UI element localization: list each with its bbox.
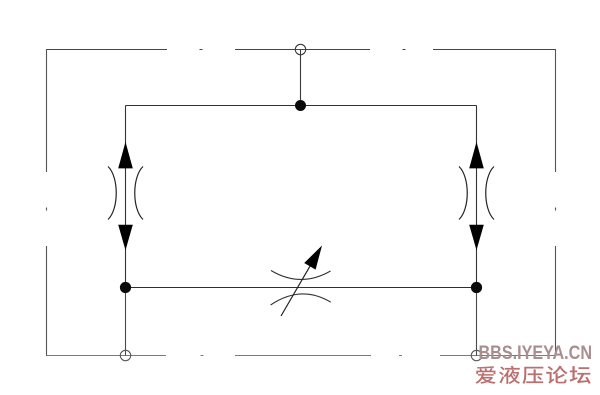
wire: bottom left port stub: [125, 288, 127, 356]
variable throttle: adjustment arrow shaft: [281, 266, 310, 316]
throttle valve right: up arrow: [469, 142, 484, 169]
svg-text:BBS.IYEYA.CN: BBS.IYEYA.CN: [479, 343, 593, 364]
variable throttle: adjustment arrow head: [304, 246, 322, 270]
enclosure boundary left (dash-dot): [46, 49, 48, 356]
throttle valve left: arcs: [108, 167, 143, 220]
throttle valve left: down arrow: [118, 225, 133, 251]
wire: bottom right port stub: [476, 288, 478, 356]
variable throttle: upper arc: [271, 271, 331, 280]
watermark chinese text: [475, 366, 590, 384]
throttle valve right: arcs: [459, 167, 494, 220]
throttle valve right: down arrow: [469, 225, 484, 251]
node: bottom left junction: [120, 282, 131, 293]
node: top junction: [295, 100, 306, 111]
wire: left branch vertical: [125, 106, 127, 288]
port circle bottom right: [471, 350, 481, 360]
wire: top port stub: [300, 50, 302, 106]
port circle bottom left: [120, 350, 130, 360]
enclosure boundary top (dash-dot): [46, 49, 555, 51]
port circle top: [295, 44, 305, 54]
wire: right branch vertical: [476, 106, 478, 288]
enclosure boundary bottom (dash-dot): [46, 355, 556, 357]
wire: bottom rail: [126, 287, 477, 289]
wire: inner top rail: [126, 105, 477, 107]
enclosure boundary right (dash-dot): [555, 49, 557, 356]
throttle valve left: up arrow: [118, 142, 133, 169]
variable throttle: lower arc: [271, 294, 331, 305]
node: bottom right junction: [471, 282, 482, 293]
